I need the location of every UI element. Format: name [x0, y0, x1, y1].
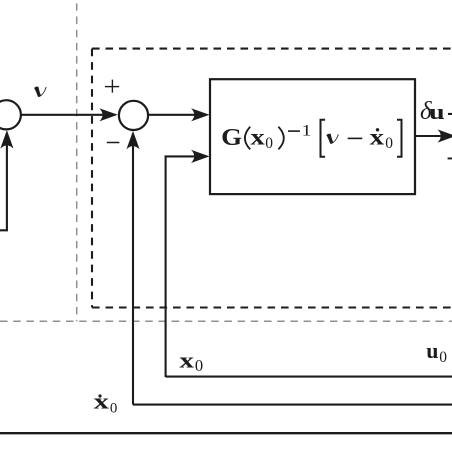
arrowhead into block input 2 [191, 150, 210, 163]
wire: S2 lower input from x0-dot line [132, 146, 134, 405]
svg-text:x: x [370, 125, 385, 150]
svg-text:x: x [179, 347, 194, 372]
label u0 [426, 338, 447, 366]
clipped glyph fragment below output arrow [448, 158, 452, 160]
summing junction S1 (left, clipped) [0, 100, 21, 129]
label delta-u + (clipped at edge) [420, 98, 452, 125]
label x0-dot [94, 389, 118, 417]
outer boundary (gray dashed) vertical segment [76, 0, 78, 321]
arrowhead into S2 bottom [126, 131, 139, 150]
svg-text:0: 0 [110, 400, 118, 416]
svg-text:u: u [426, 338, 438, 363]
block math: G(x0)^-1 [nu - x0dot] [221, 120, 401, 157]
svg-text:1: 1 [302, 123, 312, 140]
summing junction S2 [119, 101, 148, 130]
plant block top edge (clipped at bottom) [0, 432, 452, 434]
svg-text:0: 0 [195, 356, 203, 375]
label nu [34, 87, 47, 97]
svg-text:G: G [221, 125, 242, 151]
svg-text:0: 0 [439, 349, 447, 366]
svg-text:x: x [94, 389, 109, 414]
svg-text:0: 0 [385, 135, 393, 152]
wire: S2 to block G input [149, 114, 196, 116]
svg-text:u: u [429, 99, 445, 124]
plus sign at S2 [105, 80, 119, 93]
svg-text:x: x [251, 125, 266, 150]
arrowhead output [438, 129, 452, 142]
block U1: inverse decoupling G(x0)^-1 [210, 79, 415, 194]
wire: block output delta-u [416, 135, 446, 137]
controller boundary (black dashed box, open at right) [92, 49, 452, 308]
arrowhead into S2 left [99, 108, 118, 121]
outer boundary (gray dashed) horizontal segment [0, 320, 452, 322]
arrowhead into S1 bottom [0, 130, 13, 149]
wire: nu from S1 to S2 [22, 114, 105, 116]
minus sign at S2 [107, 142, 120, 144]
label x0 [179, 347, 203, 375]
wire: feedback into summing junction S1 from left edge [0, 144, 7, 230]
wire: x0-dot horizontal run from plant [133, 404, 452, 406]
wire: x0 up and into block input 2 [166, 156, 196, 377]
wire: x0 horizontal run from plant [166, 376, 452, 378]
svg-text:0: 0 [265, 135, 273, 152]
arrowhead into block input 1 [191, 108, 210, 121]
